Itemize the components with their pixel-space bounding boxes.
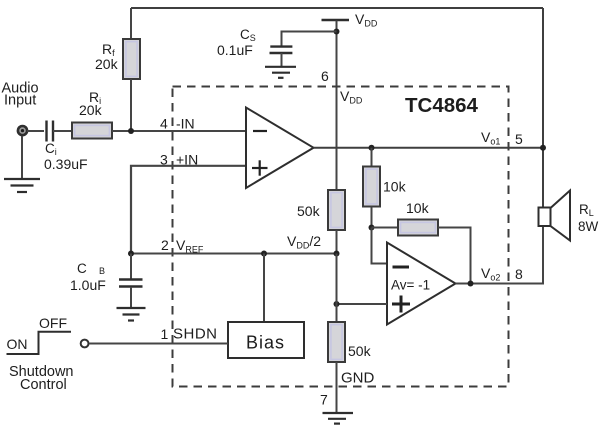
label 10k vertical xyxy=(383,179,407,195)
wire feedback node to 10k horizontal xyxy=(372,227,399,229)
svg-text:Bias: Bias xyxy=(246,333,285,353)
wire CS branch xyxy=(282,32,337,46)
svg-text:7: 7 xyxy=(320,392,328,408)
svg-text:Input: Input xyxy=(4,93,36,109)
label Shutdown Control xyxy=(9,364,74,393)
svg-text:RL: RL xyxy=(579,202,594,218)
wire op-amp U2 output Vo2 to speaker xyxy=(456,226,544,284)
wire CB to ground xyxy=(130,287,132,307)
svg-text:SHDN: SHDN xyxy=(173,326,218,343)
svg-text:Vo2: Vo2 xyxy=(481,265,500,283)
wire VDD/2 node down to 50k lower xyxy=(336,254,338,323)
pin 6 label xyxy=(321,68,329,84)
node junction Vo2/feedback xyxy=(468,281,474,287)
svg-text:ON: ON xyxy=(7,336,28,352)
wire input ground lead xyxy=(21,136,23,178)
op-amp U1 xyxy=(246,108,314,189)
label RL xyxy=(579,202,594,218)
svg-text:Ci: Ci xyxy=(45,141,57,157)
IC boundary dashed box TC4864 xyxy=(173,87,509,387)
wire VDD/2 node to op-amp U2 non-inverting input xyxy=(337,303,388,305)
svg-text:Vo1: Vo1 xyxy=(481,129,500,147)
svg-text:6: 6 xyxy=(321,68,329,84)
pin 2 label xyxy=(161,237,169,253)
op-amp U2 xyxy=(387,243,456,325)
svg-text:Av= -1: Av= -1 xyxy=(391,278,430,293)
ground CB xyxy=(117,308,146,321)
svg-text:8W: 8W xyxy=(578,219,599,234)
resistor Rf xyxy=(123,39,140,79)
svg-text:50k: 50k xyxy=(297,203,321,219)
svg-text:0.39uF: 0.39uF xyxy=(44,156,88,172)
wire input terminal to Ci xyxy=(27,130,44,132)
wire VREF rail xyxy=(131,253,337,255)
capacitor Ci xyxy=(47,121,54,142)
svg-text:4: 4 xyxy=(160,116,168,132)
ground CS xyxy=(265,67,296,78)
svg-text:Control: Control xyxy=(20,377,67,393)
label TC4864 xyxy=(405,94,479,117)
label Rf value 20k xyxy=(95,56,119,72)
svg-text:OFF: OFF xyxy=(39,315,67,331)
wire op-amp U1 output Vo1 xyxy=(314,147,544,149)
wire VDD vertical down to 50k upper xyxy=(336,21,338,191)
wire 50k lower to ground xyxy=(336,362,338,413)
label 50k lower xyxy=(348,343,372,359)
node junction +input U2 xyxy=(334,301,340,307)
label SHDN xyxy=(173,326,218,343)
label VREF xyxy=(176,237,204,255)
node junction Vo1/speaker xyxy=(540,145,546,151)
label CS value 0.1uF xyxy=(217,42,253,58)
pin 5 label xyxy=(515,131,523,147)
svg-text:10k: 10k xyxy=(406,200,430,216)
wire 50k upper to VREF node xyxy=(336,230,338,254)
label +IN xyxy=(176,152,198,168)
label CB xyxy=(77,261,105,276)
svg-text:VREF: VREF xyxy=(176,237,204,255)
label Audio Input xyxy=(2,81,39,109)
wire +IN to VREF node xyxy=(131,166,246,254)
wire 10k horizontal to Vo2 xyxy=(438,228,471,284)
VDD power bar xyxy=(322,19,350,22)
op-amp U2 minus sign xyxy=(393,266,410,269)
shutdown waveform xyxy=(7,332,72,354)
capacitor CS xyxy=(270,47,293,53)
ground input xyxy=(4,179,40,192)
pin 4 label xyxy=(160,116,168,132)
pin 8 label xyxy=(515,266,523,282)
node junction VDD/CS xyxy=(334,29,340,35)
Bias block xyxy=(228,322,304,358)
wire CS to ground xyxy=(281,53,283,66)
node junction Rf/Ri/-IN xyxy=(128,128,134,134)
svg-text:VDD: VDD xyxy=(340,88,363,106)
op-amp U1 plus sign xyxy=(252,160,268,175)
svg-text:10k: 10k xyxy=(383,179,407,195)
wire 10k upper lead xyxy=(371,148,373,167)
pin 1 label xyxy=(161,326,169,342)
svg-text:2: 2 xyxy=(161,237,169,253)
label VDD inside box xyxy=(340,88,363,106)
pin 3 label xyxy=(160,152,168,168)
svg-text:1: 1 xyxy=(161,326,169,342)
wire right vertical from top rail to speaker top xyxy=(542,8,544,208)
label ON xyxy=(7,336,28,352)
label CS xyxy=(240,27,256,43)
wire feedback to op-amp U2 inverting input xyxy=(372,228,388,264)
svg-text:GND: GND xyxy=(341,370,375,387)
resistor Ri xyxy=(72,123,112,139)
label Av= -1 xyxy=(391,278,430,293)
svg-text:50k: 50k xyxy=(348,343,372,359)
wire Ci to Ri xyxy=(53,130,72,132)
label Ci xyxy=(45,141,57,157)
svg-text:C: C xyxy=(77,261,87,276)
svg-text:20k: 20k xyxy=(95,56,119,72)
wire Rf top lead xyxy=(130,8,132,39)
label Ri value 20k xyxy=(79,102,103,118)
svg-text:B: B xyxy=(99,266,105,276)
wire SHDN to Bias xyxy=(89,343,228,345)
label OFF xyxy=(39,315,67,331)
svg-text:VDD: VDD xyxy=(355,11,378,29)
wire Ri to op-amp inverting input xyxy=(112,130,246,132)
label Vo1 xyxy=(481,129,500,147)
speaker RL xyxy=(539,191,571,241)
label 10k horizontal xyxy=(406,200,430,216)
svg-text:1.0uF: 1.0uF xyxy=(70,277,106,293)
resistor 10k horizontal xyxy=(398,220,438,236)
svg-text:8: 8 xyxy=(515,266,523,282)
label Ci value 0.39uF xyxy=(44,156,88,172)
wire top rail from Rf to speaker branch xyxy=(131,7,543,9)
svg-text:VDD/2: VDD/2 xyxy=(287,233,321,251)
node junction VREF/CB xyxy=(128,251,134,257)
input terminal xyxy=(18,126,27,135)
wire VREF node to CB xyxy=(130,254,132,279)
svg-text:CS: CS xyxy=(240,27,256,43)
ground main xyxy=(323,413,354,424)
resistor 50k lower xyxy=(328,322,345,362)
resistor 50k upper xyxy=(328,190,345,230)
wire Bias drop from VREF rail xyxy=(263,254,265,323)
wire 10k lower lead xyxy=(371,207,373,228)
op-amp U2 plus sign xyxy=(392,296,410,313)
op-amp U1 minus sign xyxy=(253,130,267,132)
label -IN xyxy=(176,116,195,132)
label VDD top xyxy=(355,11,378,29)
label 50k upper xyxy=(297,203,321,219)
node junction VREF/Bias xyxy=(261,251,267,257)
label VDD/2 xyxy=(287,233,321,251)
shutdown terminal xyxy=(81,340,89,348)
svg-text:20k: 20k xyxy=(79,102,103,118)
label GND xyxy=(341,370,375,387)
label CB value 1.0uF xyxy=(70,277,106,293)
svg-text:TC4864: TC4864 xyxy=(405,94,479,117)
svg-text:5: 5 xyxy=(515,131,523,147)
capacitor CB xyxy=(119,280,143,287)
resistor 10k vertical xyxy=(363,167,380,207)
svg-text:0.1uF: 0.1uF xyxy=(217,42,253,58)
label Vo2 xyxy=(481,265,500,283)
node junction feedback xyxy=(369,225,375,231)
label Ri xyxy=(89,89,101,106)
label Rf xyxy=(102,41,115,58)
label RL value 8W xyxy=(578,219,599,234)
svg-text:-IN: -IN xyxy=(176,116,195,132)
node junction VDD/2 xyxy=(334,251,340,257)
wire Rf bottom lead to -IN node xyxy=(130,79,132,131)
node junction Vo1/10k xyxy=(369,145,375,151)
pin 7 label xyxy=(320,392,328,408)
